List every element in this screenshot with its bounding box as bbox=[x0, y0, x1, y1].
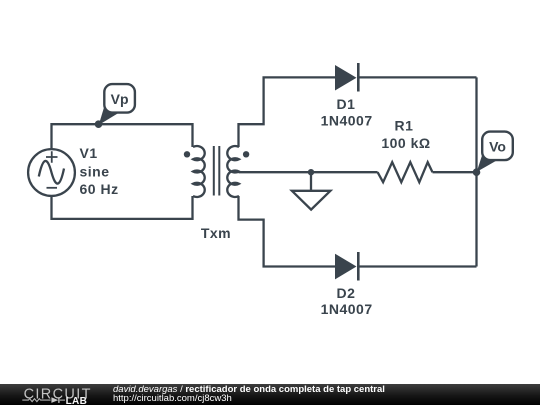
svg-text:sine: sine bbox=[80, 163, 110, 179]
diode D2 bbox=[335, 252, 358, 281]
CircuitLab logo bbox=[18, 384, 114, 405]
svg-text:R1: R1 bbox=[395, 118, 414, 134]
wire source top to primary top bbox=[52, 124, 193, 150]
transformer core bbox=[214, 146, 220, 196]
svg-text:D2: D2 bbox=[337, 285, 356, 301]
node flag Vp bbox=[99, 84, 135, 125]
label D2 1N4007 bbox=[321, 285, 373, 317]
wire center tap to resistor bbox=[239, 171, 378, 173]
svg-text:1N4007: 1N4007 bbox=[321, 301, 373, 317]
transformer Txm secondary coil bbox=[227, 146, 239, 197]
wire bottom from right corner to D2 cathode bbox=[358, 265, 476, 267]
wire D1 cathode to right corner bbox=[358, 76, 476, 78]
svg-text:D1: D1 bbox=[337, 96, 356, 112]
svg-text:1N4007: 1N4007 bbox=[321, 112, 373, 128]
wire D2 anode to secondary bottom bbox=[239, 196, 336, 267]
label D1 1N4007 bbox=[321, 96, 373, 128]
wire source bottom to primary bottom bbox=[52, 196, 193, 219]
label V1 sine 60 Hz bbox=[80, 145, 119, 197]
wire right vertical rail bbox=[475, 77, 477, 266]
svg-text:60 Hz: 60 Hz bbox=[80, 181, 119, 197]
ground bbox=[292, 172, 331, 209]
node Vo junction dot bbox=[473, 168, 481, 176]
footer bar bbox=[0, 384, 540, 405]
resistor R1 bbox=[378, 162, 433, 182]
footer text bbox=[113, 385, 385, 404]
ground junction dot bbox=[308, 169, 314, 175]
svg-text:V1: V1 bbox=[80, 145, 98, 161]
node Vp junction dot bbox=[95, 120, 103, 128]
svg-text:LAB: LAB bbox=[66, 396, 88, 405]
label R1 100 kOhm bbox=[381, 118, 430, 151]
transformer Txm primary coil bbox=[193, 146, 205, 197]
svg-text:Vp: Vp bbox=[111, 91, 129, 107]
voltage source V1 bbox=[28, 149, 75, 196]
svg-text:Vo: Vo bbox=[489, 138, 506, 154]
wire resistor to node Vo bbox=[433, 171, 477, 173]
svg-text:Txm: Txm bbox=[201, 225, 231, 241]
diode D1 bbox=[335, 63, 358, 92]
svg-text:100 kΩ: 100 kΩ bbox=[381, 135, 430, 151]
node flag Vo bbox=[477, 132, 513, 172]
wire secondary top to D1 anode bbox=[239, 77, 336, 147]
transformer primary phase dot bbox=[184, 151, 190, 157]
transformer secondary phase dot bbox=[243, 151, 249, 157]
